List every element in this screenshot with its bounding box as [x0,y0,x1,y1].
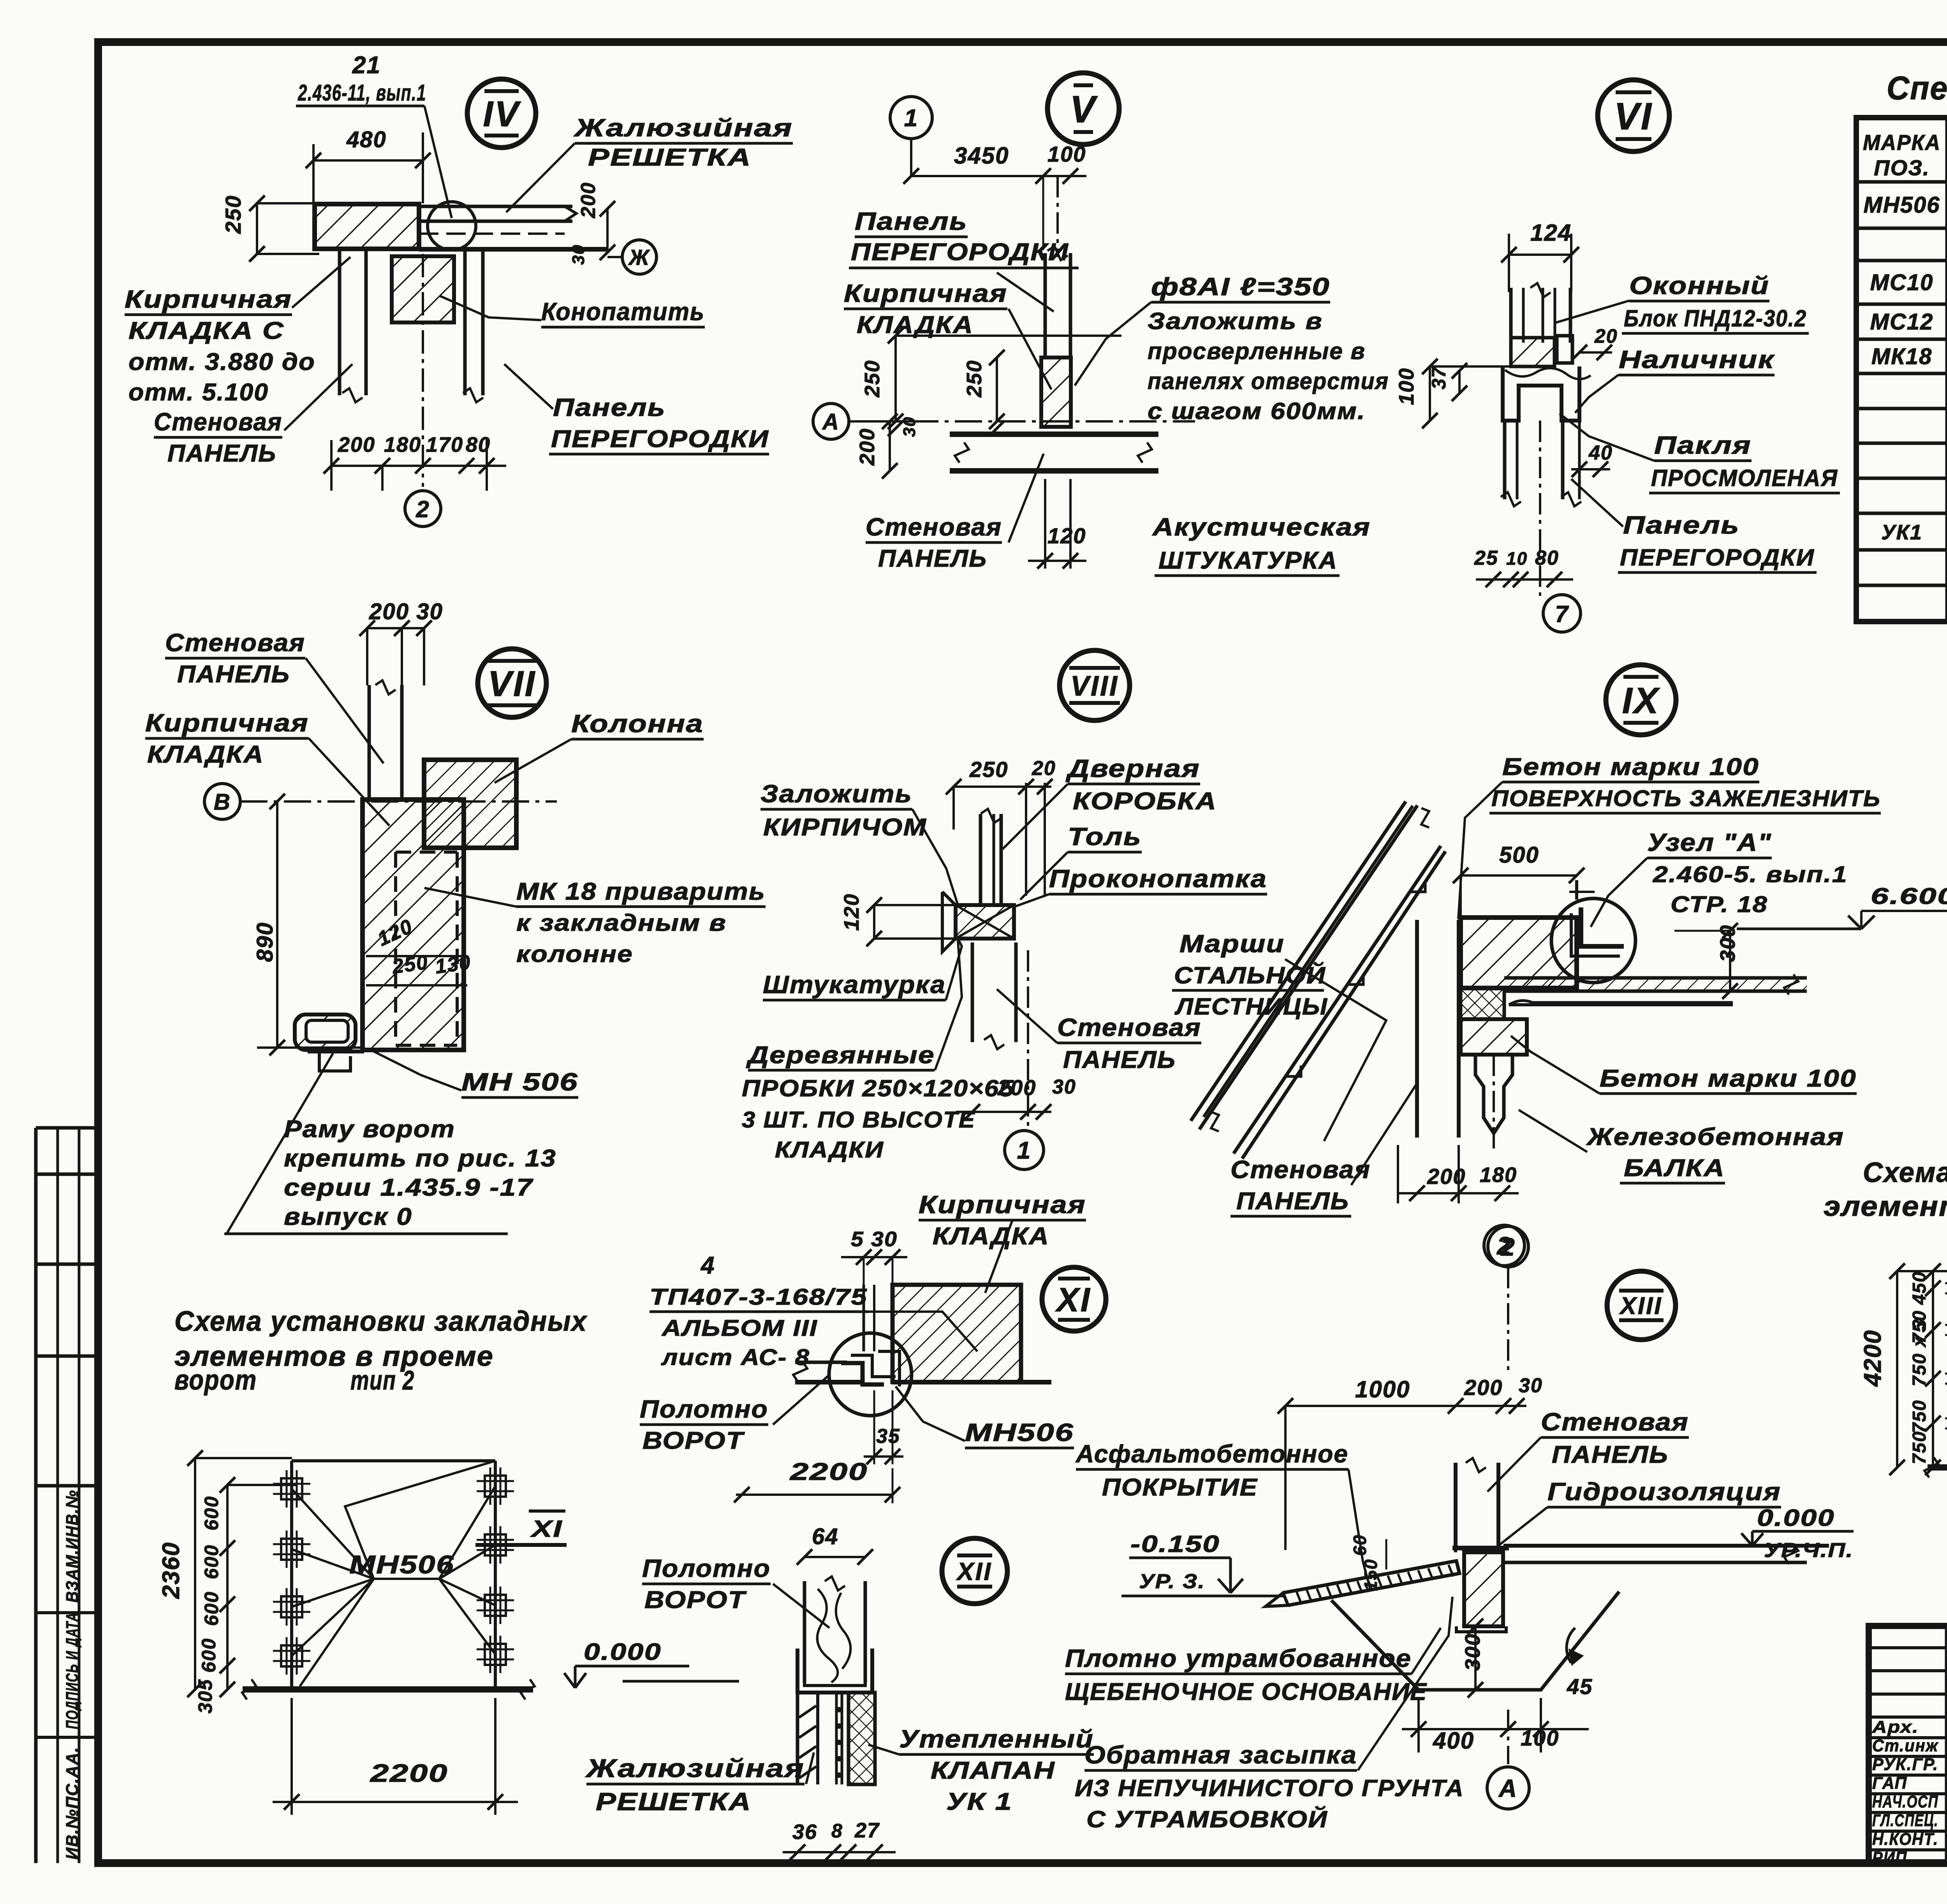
svg-text:180: 180 [384,433,421,456]
svg-text:7: 7 [1555,601,1569,627]
svg-text:КЛАДКА: КЛАДКА [933,1223,1049,1250]
svg-text:Полотно: Полотно [640,1395,768,1423]
svg-text:отм. 5.100: отм. 5.100 [129,379,269,406]
svg-text:БАЛКА: БАЛКА [1624,1155,1725,1182]
svg-text:2: 2 [1500,1233,1516,1261]
svg-text:35: 35 [876,1425,900,1448]
svg-text:45: 45 [1567,1674,1593,1699]
svg-text:1: 1 [1017,1137,1031,1164]
svg-text:Стеновая: Стеновая [165,629,305,657]
svg-text:180: 180 [1480,1163,1517,1187]
svg-text:МК 18 приварить: МК 18 приварить [516,878,766,905]
svg-text:ПОВЕРХНОСТЬ ЗАЖЕЛЕЗНИТЬ: ПОВЕРХНОСТЬ ЗАЖЕЛЕЗНИТЬ [1491,786,1881,811]
svg-text:120: 120 [840,893,863,931]
svg-text:Обратная засыпка: Обратная засыпка [1084,1741,1357,1769]
svg-text:Жалюзийная: Жалюзийная [585,1754,805,1782]
svg-text:Схема установки закладных: Схема установки закладных [1863,1157,1947,1188]
svg-text:ЩЕБЕНОЧНОЕ ОСНОВАНИЕ: ЩЕБЕНОЧНОЕ ОСНОВАНИЕ [1065,1679,1427,1705]
svg-text:2200: 2200 [790,1458,868,1485]
svg-text:170: 170 [426,433,463,456]
svg-text:Штукатурка: Штукатурка [763,970,946,999]
svg-text:V: V [1070,88,1098,130]
svg-text:ИЗ НЕПУЧИНИСТОГО ГРУНТА: ИЗ НЕПУЧИНИСТОГО ГРУНТА [1075,1775,1464,1801]
svg-text:250: 250 [221,195,245,234]
svg-text:IV: IV [483,94,521,134]
svg-text:КЛАПАН: КЛАПАН [931,1757,1055,1784]
svg-text:ИВ.№ПС.АА.: ИВ.№ПС.АА. [63,1747,82,1860]
svg-text:ГЛ.СПЕЦ.: ГЛ.СПЕЦ. [1872,1811,1938,1830]
svg-text:4200: 4200 [1859,1330,1886,1387]
svg-text:27: 27 [854,1819,880,1842]
svg-text:200 30: 200 30 [369,599,443,624]
svg-text:КЛАДКА: КЛАДКА [857,312,974,338]
svg-text:890: 890 [252,922,278,962]
svg-text:30: 30 [1052,1076,1076,1098]
svg-text:ПАНЕЛЬ: ПАНЕЛЬ [1552,1441,1669,1468]
svg-text:с шагом 600мм.: с шагом 600мм. [1148,398,1366,424]
svg-text:37: 37 [1428,366,1450,389]
svg-text:Наличник: Наличник [1619,345,1775,373]
svg-text:ПАНЕЛЬ: ПАНЕЛЬ [1236,1188,1349,1215]
svg-text:200: 200 [338,433,375,456]
svg-text:IX: IX [1622,680,1660,721]
svg-text:РИП: РИП [1872,1848,1907,1867]
svg-text:Стеновая: Стеновая [1541,1408,1689,1436]
svg-text:Н.КОНТ.: Н.КОНТ. [1872,1830,1938,1849]
svg-text:20: 20 [1032,757,1056,780]
svg-text:Утепленный: Утепленный [899,1725,1094,1753]
svg-text:5 30: 5 30 [851,1228,898,1251]
svg-text:А: А [822,409,840,435]
svg-text:2.436-11, вып.1: 2.436-11, вып.1 [298,80,426,106]
svg-text:500: 500 [1499,842,1539,868]
svg-text:лист АС- 8: лист АС- 8 [661,1345,810,1370]
svg-text:Акустическая: Акустическая [1152,513,1371,541]
svg-text:305: 305 [194,1679,216,1714]
svg-text:XI: XI [1055,1281,1091,1319]
svg-text:Стеновая: Стеновая [154,408,282,436]
svg-text:ворот: ворот [174,1365,257,1396]
svg-text:МН506: МН506 [349,1550,454,1579]
svg-text:Марши: Марши [1179,930,1285,958]
svg-text:250: 250 [861,360,884,398]
svg-text:выпуск 0: выпуск 0 [284,1203,412,1230]
svg-text:3 ШТ. ПО ВЫСОТЕ: 3 ШТ. ПО ВЫСОТЕ [742,1107,975,1133]
svg-text:ф8АI ℓ=350: ф8АI ℓ=350 [1151,273,1330,301]
svg-text:УР.Ч.П.: УР.Ч.П. [1764,1539,1854,1562]
svg-text:Кирпичная: Кирпичная [844,279,1007,307]
svg-text:СТАЛЬНОЙ: СТАЛЬНОЙ [1174,962,1326,988]
svg-text:Колонна: Колонна [571,710,704,738]
svg-text:ПРОБКИ 250×120×65: ПРОБКИ 250×120×65 [742,1075,1014,1101]
svg-text:УР. З.: УР. З. [1139,1570,1205,1593]
svg-text:ПАНЕЛЬ: ПАНЕЛЬ [1063,1046,1176,1073]
svg-text:отм. 3.880 до: отм. 3.880 до [129,349,315,375]
svg-text:МН506: МН506 [1864,192,1940,218]
svg-text:ПОДПИСЬ И ДАТА: ПОДПИСЬ И ДАТА [63,1612,82,1729]
svg-text:АЛЬБОМ III: АЛЬБОМ III [661,1316,818,1341]
svg-text:Панель: Панель [553,393,666,421]
svg-text:3450: 3450 [954,143,1009,169]
svg-text:панелях отверстия: панелях отверстия [1148,368,1389,394]
svg-text:крепить по рис. 13: крепить по рис. 13 [284,1145,556,1172]
svg-text:МН 506: МН 506 [461,1068,578,1096]
svg-text:400: 400 [1433,1728,1474,1754]
svg-text:Проконопатка: Проконопатка [1049,865,1267,893]
svg-text:2200: 2200 [370,1759,448,1787]
svg-text:1: 1 [904,105,918,132]
svg-text:250: 250 [963,360,986,398]
svg-text:750 x 3: 750 x 3 [1909,1319,1930,1386]
svg-text:РЕШЕТКА: РЕШЕТКА [588,144,752,171]
svg-text:ПЕРЕГОРОДКИ: ПЕРЕГОРОДКИ [1620,544,1815,571]
svg-text:Заложить: Заложить [760,780,912,808]
svg-text:УК 1: УК 1 [946,1788,1012,1815]
svg-text:Кирпичная: Кирпичная [919,1191,1086,1219]
svg-text:2360: 2360 [158,1542,185,1599]
svg-text:Деревянные: Деревянные [746,1042,935,1069]
svg-text:Ст.инж: Ст.инж [1872,1736,1939,1755]
svg-text:КЛАДКА: КЛАДКА [147,741,264,768]
svg-text:Кирпичная: Кирпичная [145,709,309,737]
svg-text:30: 30 [569,244,588,265]
svg-text:200: 200 [856,428,879,466]
svg-text:21: 21 [352,52,381,79]
svg-text:80: 80 [1535,547,1559,569]
svg-text:600: 600 [201,1496,222,1531]
svg-text:УК1: УК1 [1881,521,1922,544]
svg-text:просверленные в: просверленные в [1148,338,1366,364]
svg-text:Дверная: Дверная [1065,754,1200,782]
svg-text:VI: VI [1614,95,1653,137]
svg-text:36: 36 [792,1820,817,1844]
svg-text:10: 10 [1506,548,1528,569]
svg-text:КОРОБКА: КОРОБКА [1073,788,1217,815]
svg-text:ПЕРЕГОРОДКИ: ПЕРЕГОРОДКИ [851,239,1069,266]
svg-text:элементов в проеме ворот: элементов в проеме ворот [1824,1191,1947,1222]
svg-text:Железобетонная: Железобетонная [1586,1124,1844,1150]
svg-text:ПАНЕЛЬ: ПАНЕЛЬ [177,661,290,688]
svg-text:Ж: Ж [628,245,650,269]
svg-text:к закладным в: к закладным в [516,910,727,936]
svg-text:600: 600 [201,1591,222,1626]
svg-text:МН506: МН506 [965,1418,1074,1446]
svg-text:Оконный: Оконный [1629,271,1769,299]
svg-text:Гидроизоляция: Гидроизоляция [1547,1478,1781,1506]
svg-text:Стеновая: Стеновая [1231,1155,1371,1184]
svg-text:Узел "А": Узел "А" [1647,828,1772,856]
svg-text:Арх.: Арх. [1872,1717,1919,1737]
svg-text:ПОЗ.: ПОЗ. [1874,155,1929,180]
svg-text:ПОКРЫТИЕ: ПОКРЫТИЕ [1102,1474,1258,1501]
svg-text:ВОРОТ: ВОРОТ [643,1427,745,1454]
svg-text:8: 8 [831,1820,843,1842]
svg-text:480: 480 [346,127,387,152]
svg-text:300: 300 [1461,1633,1484,1671]
svg-text:124: 124 [1530,220,1572,246]
svg-text:А: А [1498,1774,1517,1802]
svg-text:20: 20 [1594,325,1618,347]
svg-text:С УТРАМБОВКОЙ: С УТРАМБОВКОЙ [1086,1806,1328,1832]
svg-text:тип 2: тип 2 [350,1365,415,1395]
svg-text:120: 120 [1047,523,1086,548]
svg-text:2: 2 [415,496,430,522]
svg-text:ШТУКАТУРКА: ШТУКАТУРКА [1158,547,1338,574]
svg-text:XIII: XIII [1619,1293,1662,1319]
svg-text:Панель: Панель [1623,511,1740,539]
svg-text:КЛАДКА С: КЛАДКА С [129,317,284,344]
svg-text:600: 600 [198,1638,220,1673]
svg-text:Панель: Панель [855,207,968,235]
svg-text:VIII: VIII [1070,671,1119,702]
svg-text:30: 30 [1519,1374,1543,1397]
svg-text:ЛЕСТНИЦЫ: ЛЕСТНИЦЫ [1174,993,1328,1020]
svg-text:КИРПИЧОМ: КИРПИЧОМ [763,814,927,841]
svg-text:Схема установки закладных: Схема установки закладных [174,1306,588,1337]
svg-text:ПАНЕЛЬ: ПАНЕЛЬ [167,440,276,467]
svg-text:1000: 1000 [1355,1376,1410,1402]
svg-text:серии 1.435.9 -17: серии 1.435.9 -17 [284,1174,533,1201]
svg-text:64: 64 [812,1524,839,1549]
svg-text:ПЕРЕГОРОДКИ: ПЕРЕГОРОДКИ [551,426,769,453]
svg-text:30: 30 [900,416,919,437]
svg-text:ПРОСМОЛЕНАЯ: ПРОСМОЛЕНАЯ [1651,465,1838,491]
svg-text:100: 100 [1395,368,1418,405]
svg-text:Раму ворот: Раму ворот [284,1116,455,1143]
svg-text:6.600: 6.600 [1871,884,1947,909]
svg-text:НАЧ.ОСП: НАЧ.ОСП [1872,1792,1938,1811]
svg-text:Заложить в: Заложить в [1148,308,1323,334]
svg-text:2.460-5. вып.1: 2.460-5. вып.1 [1653,862,1848,887]
svg-text:Жалюзийная: Жалюзийная [573,114,793,142]
svg-text:Пакля: Пакля [1654,431,1752,459]
svg-text:В: В [214,789,231,815]
svg-text:200: 200 [1464,1375,1503,1400]
svg-text:600: 600 [201,1545,222,1579]
svg-text:XI: XI [530,1516,563,1542]
svg-text:XII: XII [956,1557,992,1585]
svg-text:250: 250 [969,757,1008,782]
svg-text:25: 25 [1474,547,1498,569]
svg-text:200: 200 [1427,1164,1466,1189]
svg-text:Спецификация элементов к пл: Спецификация элементов к плану на отм. 0… [1887,70,1947,106]
svg-text:4: 4 [700,1252,715,1279]
svg-text:Кирпичная: Кирпичная [125,285,292,313]
svg-text:ПАНЕЛЬ: ПАНЕЛЬ [878,545,987,572]
svg-text:ВЗАМ.ИНВ.№: ВЗАМ.ИНВ.№ [63,1490,82,1603]
svg-text:Конопатить: Конопатить [541,298,705,326]
svg-text:VII: VII [488,664,536,704]
svg-text:МС10: МС10 [1870,270,1934,295]
svg-text:-0.150: -0.150 [1130,1531,1220,1557]
svg-text:0.000: 0.000 [584,1639,662,1665]
svg-text:КЛАДКИ: КЛАДКИ [775,1137,884,1162]
svg-text:Асфальтобетонное: Асфальтобетонное [1075,1440,1348,1468]
svg-text:Бетон марки 100: Бетон марки 100 [1502,754,1759,780]
svg-text:ГАП: ГАП [1872,1774,1907,1793]
svg-text:РУК.ГР.: РУК.ГР. [1872,1755,1938,1774]
svg-text:ТП407-3-168/75: ТП407-3-168/75 [650,1284,868,1310]
svg-text:750: 750 [1909,1431,1930,1464]
svg-text:РЕШЕТКА: РЕШЕТКА [596,1788,752,1816]
svg-text:Полотно: Полотно [642,1554,771,1582]
svg-text:Стеновая: Стеновая [866,513,1002,541]
svg-text:Бетон марки 100: Бетон марки 100 [1600,1065,1857,1092]
svg-text:МК18: МК18 [1871,344,1932,369]
svg-text:ВОРОТ: ВОРОТ [644,1587,747,1613]
svg-text:Блок ПНД12-30.2: Блок ПНД12-30.2 [1624,305,1807,331]
svg-text:МС12: МС12 [1870,309,1934,335]
svg-text:Плотно утрамбованное: Плотно утрамбованное [1065,1644,1412,1672]
svg-text:0.000: 0.000 [1757,1505,1835,1531]
svg-text:200: 200 [577,182,600,218]
svg-text:Толь: Толь [1068,823,1142,851]
svg-text:СТР. 18: СТР. 18 [1671,892,1768,917]
svg-text:колонне: колонне [516,941,633,967]
svg-text:МАРКА: МАРКА [1863,130,1941,155]
